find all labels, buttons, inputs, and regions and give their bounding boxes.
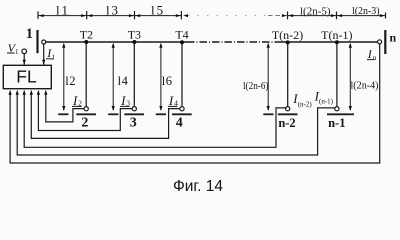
svg-text:2: 2: [81, 116, 88, 131]
svg-text:l(2n-3): l(2n-3): [352, 6, 380, 17]
svg-text:I: I: [120, 93, 126, 108]
svg-text:n: n: [373, 53, 377, 62]
svg-text:1: 1: [15, 47, 19, 56]
svg-text:l4: l4: [118, 74, 129, 88]
svg-text:l5: l5: [151, 3, 165, 18]
svg-text:T2: T2: [80, 28, 93, 42]
svg-text:l2: l2: [65, 74, 76, 88]
svg-text:T(n-1): T(n-1): [321, 28, 352, 42]
svg-text:(n-1): (n-1): [319, 98, 334, 106]
svg-text:3: 3: [130, 115, 137, 130]
svg-text:I: I: [168, 93, 174, 108]
svg-text:l6: l6: [162, 74, 173, 88]
svg-text:n-1: n-1: [328, 116, 345, 130]
svg-text:T3: T3: [128, 28, 141, 42]
svg-text:(n-2): (n-2): [298, 101, 313, 109]
svg-text:l(2n-6): l(2n-6): [243, 81, 269, 92]
svg-text:1: 1: [26, 26, 33, 42]
svg-text:T(n-2): T(n-2): [272, 28, 303, 42]
svg-text:l3: l3: [106, 3, 120, 18]
svg-text:I: I: [72, 93, 78, 108]
svg-text:1: 1: [51, 52, 55, 61]
svg-text:l(2n-5): l(2n-5): [300, 6, 331, 17]
svg-text:FL: FL: [16, 66, 37, 86]
svg-text:4: 4: [176, 115, 183, 130]
svg-text:T4: T4: [175, 28, 188, 42]
svg-text:l(2n-4): l(2n-4): [351, 80, 379, 91]
svg-text:n: n: [390, 31, 397, 45]
svg-text:Фиг. 14: Фиг. 14: [173, 178, 223, 195]
svg-text:n-2: n-2: [278, 116, 295, 130]
svg-text:l1: l1: [56, 3, 70, 18]
